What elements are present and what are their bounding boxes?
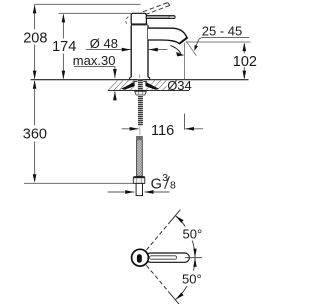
upper angle arc <box>175 216 195 258</box>
body centerline stub <box>139 75 141 79</box>
lever rod (rest position) <box>146 16 175 19</box>
lever axis extension <box>185 257 202 259</box>
water stream vertical line <box>184 43 186 80</box>
dimension 360 <box>34 81 36 181</box>
svg-text:8: 8 <box>170 179 176 191</box>
faucet body <box>131 25 148 77</box>
extension line (174 reference, hub top) <box>59 12 132 14</box>
hose-end reference line (360 bottom) <box>24 182 133 184</box>
25-45 underline and leader <box>196 38 250 48</box>
shank washer ticks <box>134 80 138 82</box>
dimension 102 <box>243 44 245 54</box>
dashed ray down (50°) <box>146 265 168 291</box>
spout-tip extension segment <box>184 114 186 130</box>
counter bottom line + Ø34 leader <box>108 90 189 92</box>
ray down extension <box>168 291 180 304</box>
hose centerline stub <box>139 126 141 135</box>
clamp washer left (solid) <box>121 82 134 90</box>
label 50° lower <box>181 271 202 287</box>
label 50° upper <box>182 227 203 241</box>
base flange <box>130 77 150 79</box>
water stream angled line <box>186 41 196 56</box>
shank through counter <box>138 80 143 90</box>
svg-text:G: G <box>151 177 162 193</box>
svg-text:208: 208 <box>23 30 47 46</box>
clamp washer right (solid) <box>145 82 158 90</box>
tube diameter arrows <box>108 191 135 193</box>
svg-text:Ø34: Ø34 <box>167 78 192 93</box>
svg-text:max.30: max.30 <box>73 53 116 68</box>
dimension 174 <box>62 15 64 79</box>
ray up extension <box>168 210 180 224</box>
dimension 116 <box>122 128 139 130</box>
dimension 208 <box>34 5 36 78</box>
hose fitting nut <box>133 176 144 177</box>
hub base ring <box>131 23 148 25</box>
threaded shank <box>138 95 143 126</box>
lever bar (plan) <box>146 253 189 262</box>
counter section hatching <box>109 80 167 90</box>
svg-text:360: 360 <box>23 126 47 142</box>
countertop line <box>31 79 249 81</box>
body circle (plan) <box>132 249 149 266</box>
mounting nut <box>134 90 146 91</box>
lever slot (plan, black) <box>137 254 142 262</box>
svg-text:102: 102 <box>233 54 257 70</box>
spout outlet extension line <box>186 41 251 43</box>
raised lever (dashed) <box>143 3 168 12</box>
spout <box>148 28 187 44</box>
svg-text:Ø 48: Ø 48 <box>90 36 118 51</box>
lever inner slot <box>150 256 177 259</box>
svg-text:116: 116 <box>151 123 174 139</box>
svg-text:50°: 50° <box>182 272 202 287</box>
swivel arc arrow <box>170 46 181 54</box>
dashed ray up (50°) <box>146 224 168 250</box>
svg-text:50°: 50° <box>183 226 203 241</box>
extension line top (208 reference, raised lever tip) <box>34 3 141 5</box>
lever pivot arc (dashed) <box>126 17 128 25</box>
faucet hub (cartridge cap) <box>131 13 146 24</box>
svg-text:25 - 45: 25 - 45 <box>202 24 242 39</box>
flexible hose <box>137 137 143 177</box>
lower angle arc <box>175 258 195 300</box>
connection tube G3/8 <box>136 183 142 195</box>
lever end cap <box>169 16 175 18</box>
